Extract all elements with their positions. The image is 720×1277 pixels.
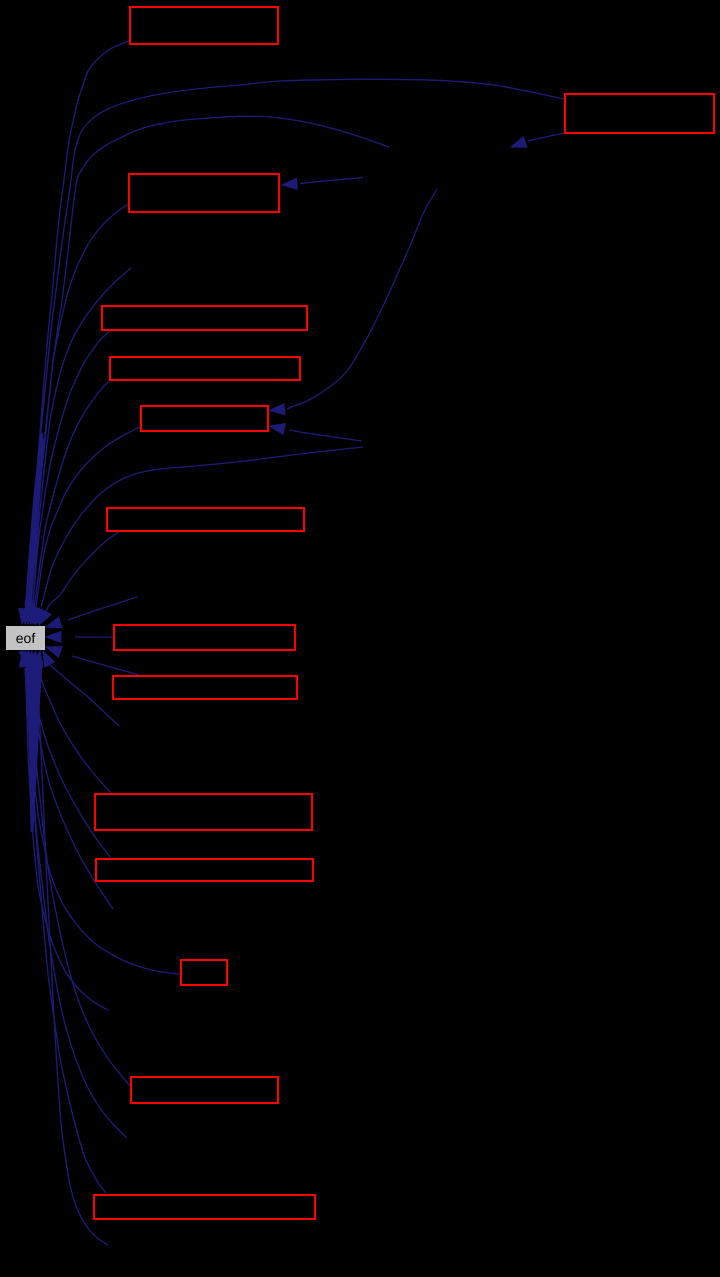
node B1 (130, 7, 278, 44)
wire B3->eof (26, 204, 129, 624)
wire n268->eof (28, 268, 132, 624)
node eof (6, 626, 45, 650)
svg-text:eof: eof (16, 630, 36, 646)
wire n597->eof (46, 597, 137, 628)
node B4 (102, 306, 307, 330)
node B10 (95, 794, 312, 830)
wire B8->eof (46, 632, 113, 643)
node B11 (96, 859, 313, 881)
wire B2->X (511, 133, 565, 147)
wire B5->eof (26, 381, 109, 624)
node B2 (565, 94, 714, 133)
wire B4->eof (27, 331, 111, 624)
node B3 (129, 174, 279, 212)
wire X->eof (23, 116, 390, 624)
node B13 (131, 1077, 278, 1103)
wire X->B3 (282, 178, 363, 190)
node B6 (141, 406, 268, 431)
wire n1138->eof (20, 651, 127, 1138)
wire B13->eof (24, 651, 131, 1086)
wire B7->eof (39, 531, 120, 625)
wire B2->eof (20, 79, 564, 624)
wire n909->eof (24, 651, 113, 909)
wire B12->eof (22, 651, 180, 974)
wire B11->eof (27, 651, 111, 858)
wire B10->eof (32, 651, 111, 793)
node B5 (110, 357, 300, 380)
wire n726->eof (43, 651, 119, 726)
node B14 (94, 1195, 315, 1219)
wire n1010->eof (19, 651, 108, 1010)
wire n1245->eof (19, 652, 108, 1245)
wire B6->eof (29, 427, 140, 624)
wire Y->B6 (270, 424, 363, 441)
wire X->B6 (270, 189, 438, 415)
wire B1->eof (19, 41, 129, 624)
wire bundle band above eof (25, 432, 45, 612)
wire B14->eof (21, 651, 106, 1193)
wire Y->eof (35, 447, 363, 624)
wire bundle band below eof (25, 660, 43, 832)
node B12 (181, 960, 227, 985)
node B7 (107, 508, 304, 531)
node B8 (114, 625, 295, 650)
wire B9->eof (46, 647, 139, 675)
node B9 (113, 676, 297, 699)
